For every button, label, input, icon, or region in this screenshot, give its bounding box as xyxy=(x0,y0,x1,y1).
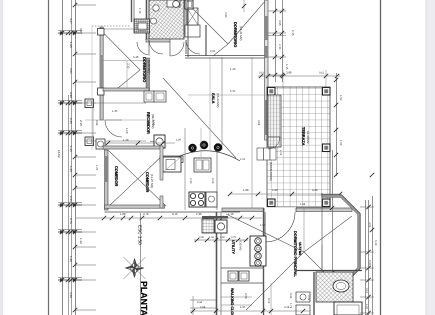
svg-text:1.20: 1.20 xyxy=(123,138,129,142)
svg-text:RECIBIDOR: RECIBIDOR xyxy=(146,112,151,134)
svg-text:1.48: 1.48 xyxy=(69,256,73,262)
svg-text:1.20: 1.20 xyxy=(365,304,368,310)
svg-text:1.05: 1.05 xyxy=(69,42,73,48)
svg-text:2.44: 2.44 xyxy=(197,301,203,304)
svg-text:3.88: 3.88 xyxy=(286,71,292,75)
svg-text:2.30: 2.30 xyxy=(196,212,202,216)
svg-text:1.50: 1.50 xyxy=(260,224,266,227)
svg-text:2.33: 2.33 xyxy=(278,44,282,50)
svg-text:1.40: 1.40 xyxy=(69,166,73,172)
svg-text:1.15: 1.15 xyxy=(69,146,73,152)
svg-text:(9.68 M2): (9.68 M2) xyxy=(147,60,151,73)
svg-text:1.50: 1.50 xyxy=(339,95,343,101)
svg-text:3.40: 3.40 xyxy=(69,292,73,298)
svg-text:SALA: SALA xyxy=(211,93,216,104)
svg-text:16.02: 16.02 xyxy=(57,150,61,158)
svg-text:3.61: 3.61 xyxy=(69,68,73,74)
svg-text:2.68: 2.68 xyxy=(200,306,206,309)
svg-text:1.80: 1.80 xyxy=(272,188,278,192)
svg-text:1.78: 1.78 xyxy=(289,303,292,309)
svg-text:3.19: 3.19 xyxy=(284,306,290,309)
svg-text:0.90: 0.90 xyxy=(368,260,372,266)
svg-text:(14.41 M2): (14.41 M2) xyxy=(239,26,243,41)
svg-text:1.80: 1.80 xyxy=(120,212,126,216)
svg-text:3.57: 3.57 xyxy=(79,28,83,34)
svg-text:0.15: 0.15 xyxy=(172,212,178,216)
svg-text:(ESCALERAS): (ESCALERAS) xyxy=(269,162,273,181)
svg-text:1.80: 1.80 xyxy=(176,139,182,142)
svg-text:0.15: 0.15 xyxy=(267,298,270,304)
svg-text:3.88: 3.88 xyxy=(257,120,260,126)
svg-text:PLANTA A: PLANTA A xyxy=(139,281,149,315)
svg-text:DORMITORIO: DORMITORIO xyxy=(233,22,238,47)
svg-text:5.46: 5.46 xyxy=(133,55,139,59)
svg-text:0.30: 0.30 xyxy=(289,293,292,299)
svg-text:1.88: 1.88 xyxy=(243,188,249,192)
svg-text:TERRAZA: TERRAZA xyxy=(301,127,306,146)
svg-text:1.50: 1.50 xyxy=(339,140,343,146)
svg-text:0.15: 0.15 xyxy=(365,288,368,294)
svg-text:0.15: 0.15 xyxy=(259,72,265,75)
svg-text:6.10: 6.10 xyxy=(374,240,378,246)
svg-text:0.90: 0.90 xyxy=(69,92,73,98)
svg-text:1.10: 1.10 xyxy=(138,8,142,14)
svg-text:16.73 M2: 16.73 M2 xyxy=(298,242,302,256)
svg-text:1.09: 1.09 xyxy=(125,128,129,134)
svg-text:4.17: 4.17 xyxy=(69,18,73,24)
svg-text:COMEDOR: COMEDOR xyxy=(114,166,119,187)
svg-text:0.30: 0.30 xyxy=(199,236,204,239)
svg-text:0.90: 0.90 xyxy=(95,120,98,126)
svg-text:(11.27 M2): (11.27 M2) xyxy=(150,174,154,188)
svg-text:4.35 M2: 4.35 M2 xyxy=(239,240,243,251)
svg-text:3.19: 3.19 xyxy=(307,295,310,301)
svg-text:1.10: 1.10 xyxy=(279,150,282,156)
svg-text:0.90: 0.90 xyxy=(210,50,216,53)
svg-text:0.30: 0.30 xyxy=(220,236,225,239)
svg-text:2.31: 2.31 xyxy=(69,196,73,202)
svg-text:1.60: 1.60 xyxy=(209,236,214,239)
svg-text:2.60: 2.60 xyxy=(244,293,248,299)
svg-text:ESC 1:50: ESC 1:50 xyxy=(138,225,143,245)
svg-text:2.15: 2.15 xyxy=(79,120,83,126)
svg-text:1.06: 1.06 xyxy=(152,120,155,126)
svg-text:COMEDOR: COMEDOR xyxy=(145,172,150,193)
svg-text:0.15: 0.15 xyxy=(319,72,325,75)
svg-text:3.95: 3.95 xyxy=(278,20,282,26)
svg-text:1.30: 1.30 xyxy=(240,306,246,309)
svg-text:0.60: 0.60 xyxy=(211,178,215,184)
svg-text:DORMITORIO: DORMITORIO xyxy=(142,57,147,82)
svg-text:4.40: 4.40 xyxy=(312,188,318,192)
svg-text:2.30: 2.30 xyxy=(189,178,193,184)
svg-text:5.30: 5.30 xyxy=(230,90,236,93)
svg-text:0.15: 0.15 xyxy=(291,30,295,36)
svg-text:1.25: 1.25 xyxy=(95,165,98,171)
svg-text:2.45: 2.45 xyxy=(69,118,73,124)
svg-text:1.88: 1.88 xyxy=(300,203,306,206)
svg-text:4.70: 4.70 xyxy=(143,212,149,216)
svg-text:1.61: 1.61 xyxy=(240,158,246,161)
svg-text:1.15: 1.15 xyxy=(285,64,289,70)
svg-text:2.86: 2.86 xyxy=(224,12,228,18)
svg-text:0.75: 0.75 xyxy=(231,236,236,239)
svg-text:UTILITY: UTILITY xyxy=(231,240,235,254)
svg-text:12.48 M2: 12.48 M2 xyxy=(306,131,310,144)
svg-text:1.46: 1.46 xyxy=(230,67,236,71)
svg-text:0.76: 0.76 xyxy=(69,218,73,224)
svg-text:1.12: 1.12 xyxy=(79,238,83,244)
svg-text:1.35: 1.35 xyxy=(112,109,118,113)
svg-text:4.61: 4.61 xyxy=(368,222,372,228)
